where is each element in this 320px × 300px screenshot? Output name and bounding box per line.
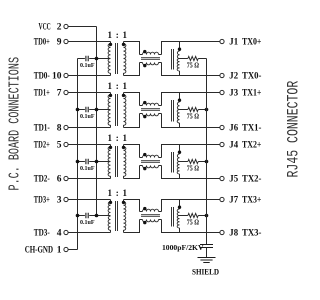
svg-text:RJ45 CONNECTOR: RJ45 CONNECTOR [285, 80, 300, 177]
terminal J1 TX0+ [220, 38, 262, 48]
svg-text:TD0+: TD0+ [34, 38, 50, 48]
svg-text:1 : 1: 1 : 1 [108, 188, 128, 198]
svg-text:TX2-: TX2- [242, 175, 261, 185]
svg-text:10: 10 [52, 72, 62, 82]
wire LT3 center tap to resistor R3 [180, 161, 188, 163]
transformer T4 core [116, 201, 118, 231]
wire choke L2 bottom rail to J6 [162, 114, 220, 128]
wire TD0+ to transformer T1 primary top [68, 41, 110, 43]
transformer T3 primary phase dot [109, 146, 112, 149]
wire T1 secondary bottom to choke L1 [124, 63, 140, 76]
terminal J8 TX3- [220, 229, 262, 239]
terminal J6 TX1- [220, 124, 262, 134]
wire T2 secondary bottom to choke L2 [124, 114, 140, 128]
terminal TD0+ pin 9 [34, 38, 68, 48]
common-mode choke L4 core [141, 215, 160, 217]
svg-text:2: 2 [57, 23, 62, 33]
wire TD2- to transformer T3 primary bottom [68, 178, 110, 180]
termination choke LT1 phase dot [178, 48, 181, 51]
transformer T1 secondary winding [124, 42, 126, 76]
terminal J2 TX0- [220, 72, 262, 82]
terminal TD0- pin 10 [34, 72, 68, 82]
junction dot bus / R3 [205, 160, 209, 164]
transformer T3 secondary winding [124, 145, 126, 179]
wire T1 secondary top to choke L1 [124, 42, 140, 55]
svg-text:TX1-: TX1- [242, 124, 261, 134]
svg-text:J5: J5 [229, 175, 238, 185]
svg-text:9: 9 [57, 38, 62, 48]
wire TD1- to transformer T2 primary bottom [68, 127, 110, 129]
termination choke LT2 core [172, 100, 174, 122]
svg-text:1 : 1: 1 : 1 [108, 81, 128, 91]
transformer T1 primary winding [108, 42, 110, 76]
svg-text:75 Ω: 75 Ω [187, 61, 199, 70]
svg-text:8: 8 [57, 124, 62, 134]
resistor R3 75 ohm [187, 159, 199, 172]
common-mode choke L4 bottom winding [140, 219, 143, 221]
common-mode choke L3 bottom winding [140, 165, 143, 167]
junction dot bus / R2 [205, 108, 209, 112]
terminal J4 TX2+ [220, 141, 262, 151]
svg-text:1000pF/2KV: 1000pF/2KV [162, 243, 204, 252]
svg-text:TD2-: TD2- [34, 175, 50, 185]
terminal VCC pin 2 [39, 23, 69, 33]
svg-text:0.1uF: 0.1uF [80, 219, 95, 226]
resistor R2 75 ohm [187, 107, 199, 120]
wire T3 secondary top to choke L3 [124, 145, 140, 158]
terminal TD2- pin 6 [34, 175, 68, 185]
wire choke L4 bottom rail to J8 [162, 220, 220, 233]
svg-text:1 : 1: 1 : 1 [108, 133, 128, 143]
choke L4 bottom phase dot [143, 221, 146, 224]
termination choke LT3 core [172, 152, 174, 173]
svg-text:6: 6 [57, 175, 62, 185]
junction dot bus / R4 [205, 214, 209, 218]
junction dot VCC rail / center tap T2 [95, 108, 99, 112]
wire resistor R3 to common bus [198, 161, 206, 163]
transformer T4 secondary winding [124, 200, 126, 233]
svg-text:SHIELD: SHIELD [192, 267, 219, 277]
choke L3 top phase dot [143, 153, 146, 156]
choke L3 bottom phase dot [143, 167, 146, 170]
resistor R1 75 ohm [187, 56, 199, 69]
common-mode choke L3 core [141, 161, 160, 163]
wire TD3- to transformer T4 primary bottom [68, 232, 110, 234]
wire choke L3 top rail to J4 [162, 145, 220, 158]
svg-text:TX2+: TX2+ [242, 141, 261, 151]
transformer T4 secondary phase dot [122, 201, 125, 204]
capacitor C5 1000pF/2KV [162, 243, 213, 252]
wire VCC to rail [68, 26, 96, 28]
wire choke L2 top rail to J3 [162, 93, 220, 106]
common-mode choke L2 core [141, 109, 160, 111]
transformer T1 core [116, 43, 118, 74]
termination choke LT1 winding [179, 42, 181, 52]
wire choke L1 top rail to J1 [162, 42, 220, 55]
junction dot VCC rail / center tap T3 [95, 160, 99, 164]
svg-text:TX0-: TX0- [242, 72, 261, 82]
svg-text:75 Ω: 75 Ω [187, 218, 199, 227]
transformer T2 secondary winding [124, 93, 126, 128]
choke L2 top phase dot [143, 101, 146, 104]
wire center tap T3 [78, 161, 111, 163]
transformer T1 secondary phase dot [122, 43, 125, 46]
svg-text:0.1uF: 0.1uF [80, 113, 95, 120]
wire TD3+ to transformer T4 primary top [68, 199, 110, 201]
svg-text:TX3-: TX3- [242, 229, 261, 239]
svg-text:J4: J4 [229, 141, 238, 151]
transformer T4 primary winding [108, 200, 110, 233]
junction dot VCC rail / center tap T1 [95, 57, 99, 61]
transformer T2 core [116, 94, 118, 126]
junction dot GND rail / cap C2 [76, 108, 80, 112]
termination choke LT2 winding [179, 93, 181, 103]
wire choke L4 top rail to J7 [162, 200, 220, 212]
junction dot GND rail / cap C4 [76, 214, 80, 218]
svg-text:4: 4 [57, 229, 62, 239]
svg-text:J1: J1 [229, 38, 238, 48]
svg-text:1: 1 [57, 246, 62, 256]
wire center tap T1 [78, 58, 111, 60]
terminal J7 TX3+ [220, 196, 262, 206]
wire T4 secondary bottom to choke L4 [124, 220, 140, 233]
choke L4 top phase dot [143, 207, 146, 210]
choke L1 top phase dot [143, 50, 146, 53]
capacitor C4 0.1uF [80, 213, 95, 227]
svg-text:J2: J2 [229, 72, 238, 82]
transformer T3 primary winding [108, 145, 110, 179]
choke L2 bottom phase dot [143, 115, 146, 118]
terminal TD3- pin 4 [34, 229, 68, 239]
termination choke LT2 phase dot [178, 99, 181, 102]
wire resistor R2 to common bus [198, 109, 206, 111]
wire resistor R4 to common bus [198, 215, 206, 217]
transformer T3 secondary phase dot [122, 146, 125, 149]
wire LT2 center tap to resistor R2 [180, 109, 188, 111]
GND rail vertical [77, 59, 79, 250]
common termination bus [206, 59, 208, 245]
transformer T3 core [116, 146, 118, 177]
VCC rail vertical [96, 27, 98, 216]
common-mode choke L3 top winding [140, 157, 143, 159]
svg-text:TX3+: TX3+ [242, 196, 261, 206]
svg-text:TD3-: TD3- [34, 229, 50, 239]
termination choke LT3 phase dot [178, 151, 181, 154]
common-mode choke L1 bottom winding [140, 62, 143, 64]
common-mode choke L4 top winding [140, 211, 143, 213]
terminal J5 TX2- [220, 175, 262, 185]
svg-text:75 Ω: 75 Ω [187, 112, 199, 121]
svg-text:3: 3 [57, 196, 62, 206]
choke L1 bottom phase dot [143, 64, 146, 67]
common-mode choke L2 bottom winding [140, 113, 143, 115]
svg-text:75 Ω: 75 Ω [187, 164, 199, 173]
svg-text:0.1uF: 0.1uF [80, 165, 95, 172]
svg-text:J7: J7 [229, 196, 238, 206]
common-mode choke L2 top winding [140, 105, 143, 107]
svg-text:TD1+: TD1+ [34, 89, 50, 99]
svg-text:0.1uF: 0.1uF [80, 62, 95, 69]
transformer T4 primary phase dot [109, 201, 112, 204]
svg-text:5: 5 [57, 141, 62, 151]
svg-text:TD2+: TD2+ [34, 141, 50, 151]
resistor R4 75 ohm [187, 213, 199, 226]
wire center tap T2 [78, 109, 111, 111]
svg-text:P.C. BOARD CONNECTIONS: P.C. BOARD CONNECTIONS [6, 57, 24, 191]
svg-text:J6: J6 [229, 124, 238, 134]
wire C5 to shield ground [206, 248, 208, 258]
wire T2 secondary top to choke L2 [124, 93, 140, 106]
svg-text:TX0+: TX0+ [242, 38, 261, 48]
transformer T1 primary phase dot [109, 43, 112, 46]
svg-text:J3: J3 [229, 89, 238, 99]
wire T4 secondary top to choke L4 [124, 200, 140, 212]
terminal TD1+ pin 7 [34, 89, 68, 99]
termination choke LT4 phase dot [178, 206, 181, 209]
termination choke LT4 core [172, 207, 174, 227]
junction dot VCC rail / center tap T4 [95, 214, 99, 218]
terminal CH-GND pin 1 [25, 246, 68, 256]
terminal TD1- pin 8 [34, 124, 68, 134]
termination choke LT4 winding [179, 200, 181, 210]
svg-text:TD0-: TD0- [34, 72, 50, 82]
wire center tap T4 [78, 215, 111, 217]
svg-text:TD1-: TD1- [34, 124, 50, 134]
capacitor C3 0.1uF [80, 159, 95, 173]
terminal TD2+ pin 5 [34, 141, 68, 151]
wire choke L3 bottom rail to J5 [162, 166, 220, 179]
svg-text:J8: J8 [229, 229, 238, 239]
wire LT1 center tap to resistor R1 [180, 58, 188, 60]
wire choke L1 bottom rail to J2 [162, 63, 220, 76]
wire TD1+ to transformer T2 primary top [68, 92, 110, 94]
termination choke LT3 winding [179, 145, 181, 155]
capacitor C2 0.1uF [80, 107, 95, 121]
common-mode choke L1 core [141, 58, 160, 60]
svg-text:VCC: VCC [39, 23, 51, 33]
wire resistor R1 to common bus [198, 58, 206, 60]
transformer T2 secondary phase dot [122, 94, 125, 97]
svg-text:1 : 1: 1 : 1 [108, 30, 128, 40]
wire T3 secondary bottom to choke L3 [124, 166, 140, 179]
junction dot GND rail / cap C3 [76, 160, 80, 164]
termination choke LT1 core [172, 49, 174, 70]
shield earth ground symbol [192, 258, 219, 277]
wire TD2+ to transformer T3 primary top [68, 144, 110, 146]
svg-text:7: 7 [57, 89, 62, 99]
terminal J3 TX1+ [220, 89, 262, 99]
transformer T2 primary phase dot [109, 94, 112, 97]
wire TD0- to transformer T1 primary bottom [68, 75, 110, 77]
svg-text:CH-GND: CH-GND [25, 246, 53, 256]
wire CH-GND to gnd rail [68, 249, 77, 251]
transformer T2 primary winding [108, 93, 110, 128]
capacitor C1 0.1uF [80, 56, 95, 69]
svg-text:TD3+: TD3+ [34, 196, 50, 206]
terminal TD3+ pin 3 [34, 196, 68, 206]
wire LT4 center tap to resistor R4 [180, 215, 188, 217]
svg-text:TX1+: TX1+ [242, 89, 261, 99]
common-mode choke L1 top winding [140, 54, 143, 56]
